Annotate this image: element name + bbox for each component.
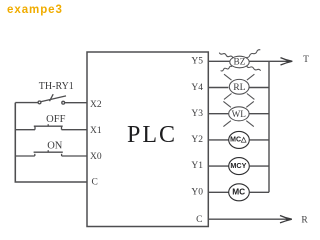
wire Y1 to coil MCY [208, 165, 228, 167]
svg-text:RL: RL [233, 82, 245, 93]
buzzer BZ [219, 50, 260, 71]
svg-text:Y4: Y4 [191, 83, 203, 93]
svg-text:C: C [196, 215, 202, 225]
svg-text:ON: ON [47, 140, 63, 151]
wire MC to bus [249, 191, 269, 193]
svg-text:X2: X2 [90, 100, 102, 110]
svg-text:MC△: MC△ [230, 137, 247, 144]
left bus wire [15, 103, 87, 182]
svg-text:R: R [301, 215, 308, 225]
svg-text:X0: X0 [90, 152, 102, 162]
pushbutton OFF (NC) [15, 124, 87, 130]
svg-text:OFF: OFF [46, 114, 65, 125]
wire X2 row left [15, 102, 38, 104]
svg-text:exampe3: exampe3 [7, 4, 63, 16]
lamp RL [224, 74, 254, 99]
svg-text:TH-RY1: TH-RY1 [39, 81, 74, 92]
coil MCY [229, 158, 250, 175]
svg-text:X1: X1 [90, 126, 102, 136]
wire WL to bus [249, 113, 270, 115]
svg-text:BZ: BZ [234, 58, 246, 68]
wire MCY to bus [249, 165, 269, 167]
svg-text:Y3: Y3 [191, 109, 203, 119]
svg-text:MC: MC [232, 187, 245, 197]
svg-text:Y1: Y1 [191, 161, 203, 171]
svg-text:PLC: PLC [127, 122, 177, 148]
wire Y2 to coil MC-delta [208, 139, 228, 141]
svg-text:WL: WL [232, 109, 247, 119]
pushbutton ON (NO) [15, 150, 87, 156]
PLC box U1 [87, 52, 208, 227]
wire Y0 to coil MC [208, 191, 228, 193]
wire MC-delta to bus [249, 139, 269, 141]
lamp WL [223, 101, 253, 126]
wire Y4 to lamp RL [208, 87, 228, 89]
svg-text:C: C [92, 178, 98, 188]
coil MC [229, 184, 250, 201]
arrow T [281, 58, 293, 65]
coil MC delta [229, 131, 250, 148]
wire RL to bus [249, 87, 270, 89]
wire Y3 to lamp WL [208, 113, 228, 115]
arrow R [280, 216, 292, 223]
svg-text:Y5: Y5 [191, 57, 203, 67]
wire C to R arrow [208, 218, 289, 220]
svg-text:Y0: Y0 [191, 187, 203, 197]
wire BZ to T arrow [249, 60, 290, 62]
svg-text:T: T [303, 55, 309, 65]
wire X2 row right [65, 102, 87, 104]
svg-text:MCY: MCY [230, 161, 246, 170]
svg-text:Y2: Y2 [191, 135, 203, 145]
wire Y5 to buzzer [208, 60, 230, 62]
right bus wire [268, 61, 270, 192]
contact TH-RY1 (thermal relay b-contact) [38, 94, 66, 104]
